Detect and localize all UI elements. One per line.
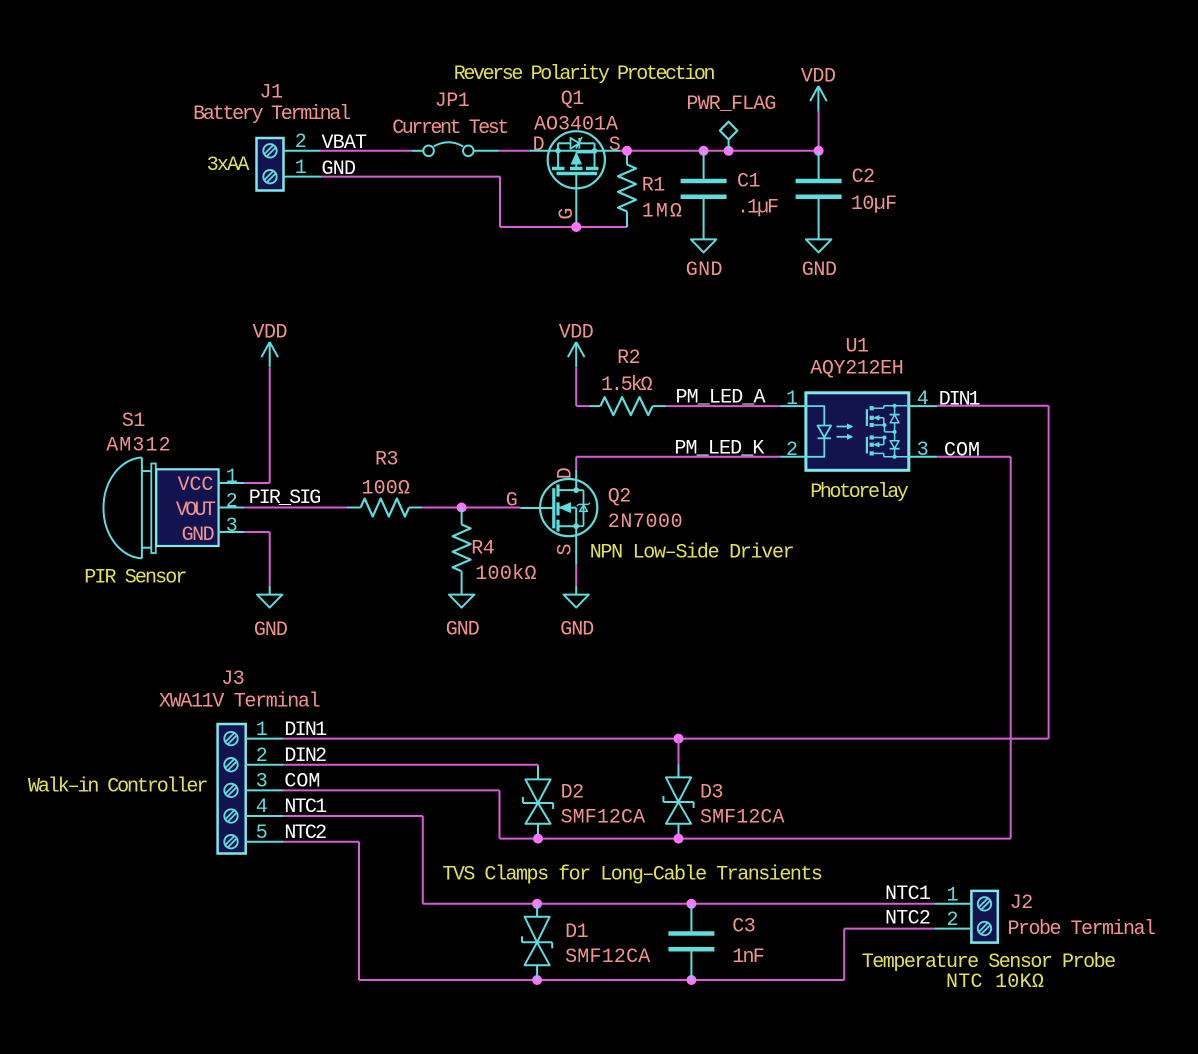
svg-text:S: S bbox=[609, 134, 621, 157]
svg-text:NPN Low–Side Driver: NPN Low–Side Driver bbox=[590, 542, 794, 565]
svg-text:C2: C2 bbox=[852, 166, 875, 189]
svg-text:10µF: 10µF bbox=[851, 193, 897, 216]
svg-text:1nF: 1nF bbox=[732, 946, 764, 969]
svg-text:SMF12CA: SMF12CA bbox=[565, 946, 650, 969]
svg-text:GND: GND bbox=[322, 158, 356, 181]
svg-text:VOUT: VOUT bbox=[176, 499, 216, 522]
svg-text:J3: J3 bbox=[221, 668, 244, 691]
svg-text:3: 3 bbox=[917, 439, 929, 462]
svg-text:NTC2: NTC2 bbox=[885, 907, 930, 930]
svg-text:C3: C3 bbox=[732, 916, 755, 939]
svg-text:GND: GND bbox=[182, 524, 214, 547]
svg-text:4: 4 bbox=[256, 796, 268, 819]
svg-text:SMF12CA: SMF12CA bbox=[700, 807, 785, 830]
svg-text:U1: U1 bbox=[845, 336, 869, 359]
svg-text:Q2: Q2 bbox=[608, 486, 631, 509]
svg-text:JP1: JP1 bbox=[435, 90, 470, 113]
svg-text:GND: GND bbox=[560, 619, 593, 642]
svg-text:PIR_SIG: PIR_SIG bbox=[249, 487, 321, 510]
svg-text:S: S bbox=[554, 544, 577, 556]
svg-text:COM: COM bbox=[944, 439, 980, 462]
svg-text:AM312: AM312 bbox=[106, 434, 172, 457]
svg-text:PM_LED_A: PM_LED_A bbox=[676, 386, 766, 409]
svg-text:GND: GND bbox=[446, 619, 479, 642]
svg-text:PWR_FLAG: PWR_FLAG bbox=[686, 93, 775, 116]
svg-text:NTC1: NTC1 bbox=[885, 883, 931, 906]
svg-text:Photorelay: Photorelay bbox=[810, 481, 909, 504]
svg-text:C1: C1 bbox=[737, 171, 761, 194]
svg-text:1: 1 bbox=[256, 719, 268, 742]
svg-text:AQY212EH: AQY212EH bbox=[810, 357, 903, 380]
svg-text:R4: R4 bbox=[471, 537, 494, 560]
svg-text:D3: D3 bbox=[700, 782, 723, 805]
svg-text:DIN1: DIN1 bbox=[939, 389, 981, 412]
svg-text:D: D bbox=[533, 134, 545, 157]
svg-text:GND: GND bbox=[802, 259, 837, 282]
svg-text:3: 3 bbox=[226, 515, 238, 538]
svg-text:S1: S1 bbox=[122, 410, 146, 433]
svg-text:2: 2 bbox=[947, 909, 959, 932]
svg-text:GND: GND bbox=[686, 259, 723, 282]
svg-text:J2: J2 bbox=[1010, 892, 1033, 915]
svg-text:100Ω: 100Ω bbox=[362, 478, 411, 501]
svg-text:1: 1 bbox=[947, 885, 959, 908]
svg-text:R1: R1 bbox=[642, 174, 666, 197]
svg-text:2: 2 bbox=[295, 131, 307, 154]
svg-text:G: G bbox=[556, 208, 579, 220]
svg-text:VCC: VCC bbox=[178, 474, 214, 497]
svg-text:1.5kΩ: 1.5kΩ bbox=[601, 374, 653, 397]
svg-text:1: 1 bbox=[226, 466, 238, 489]
svg-text:G: G bbox=[506, 490, 518, 513]
svg-text:4: 4 bbox=[917, 388, 929, 411]
svg-text:TVS Clamps for Long–Cable Tran: TVS Clamps for Long–Cable Transients bbox=[442, 864, 822, 887]
svg-text:VBAT: VBAT bbox=[322, 132, 368, 155]
svg-text:D2: D2 bbox=[561, 782, 584, 805]
svg-text:D1: D1 bbox=[565, 921, 589, 944]
svg-text:R2: R2 bbox=[617, 347, 640, 370]
svg-text:SMF12CA: SMF12CA bbox=[561, 807, 646, 830]
svg-text:Battery Terminal: Battery Terminal bbox=[193, 103, 350, 126]
svg-text:PM_LED_K: PM_LED_K bbox=[674, 437, 764, 460]
svg-text:100kΩ: 100kΩ bbox=[475, 563, 537, 586]
svg-text:D: D bbox=[554, 468, 577, 480]
svg-text:.1µF: .1µF bbox=[737, 197, 778, 220]
svg-text:AO3401A: AO3401A bbox=[534, 114, 618, 137]
svg-text:PIR Sensor: PIR Sensor bbox=[84, 567, 186, 590]
svg-text:Probe Terminal: Probe Terminal bbox=[1008, 918, 1156, 941]
svg-text:Current Test: Current Test bbox=[392, 117, 507, 140]
svg-text:Walk–in Controller: Walk–in Controller bbox=[28, 776, 207, 799]
svg-text:Reverse Polarity Protection: Reverse Polarity Protection bbox=[454, 63, 715, 86]
svg-text:1: 1 bbox=[786, 388, 798, 411]
svg-text:3xAA: 3xAA bbox=[207, 154, 250, 177]
svg-text:3: 3 bbox=[256, 771, 268, 794]
svg-text:2: 2 bbox=[786, 439, 798, 462]
svg-text:1MΩ: 1MΩ bbox=[642, 201, 684, 224]
svg-text:2: 2 bbox=[256, 745, 268, 768]
svg-text:Q1: Q1 bbox=[561, 88, 585, 111]
svg-text:1: 1 bbox=[295, 157, 307, 180]
svg-text:XWA11V Terminal: XWA11V Terminal bbox=[159, 691, 320, 714]
svg-text:5: 5 bbox=[256, 822, 268, 845]
svg-text:R3: R3 bbox=[375, 449, 398, 472]
svg-text:VDD: VDD bbox=[252, 321, 287, 344]
svg-text:VDD: VDD bbox=[801, 66, 836, 89]
svg-text:J1: J1 bbox=[259, 82, 283, 105]
svg-text:2: 2 bbox=[226, 491, 238, 514]
svg-text:GND: GND bbox=[254, 619, 287, 642]
svg-text:VDD: VDD bbox=[559, 321, 594, 344]
svg-text:2N7000: 2N7000 bbox=[608, 511, 683, 534]
svg-text:NTC 10KΩ: NTC 10KΩ bbox=[946, 971, 1044, 994]
